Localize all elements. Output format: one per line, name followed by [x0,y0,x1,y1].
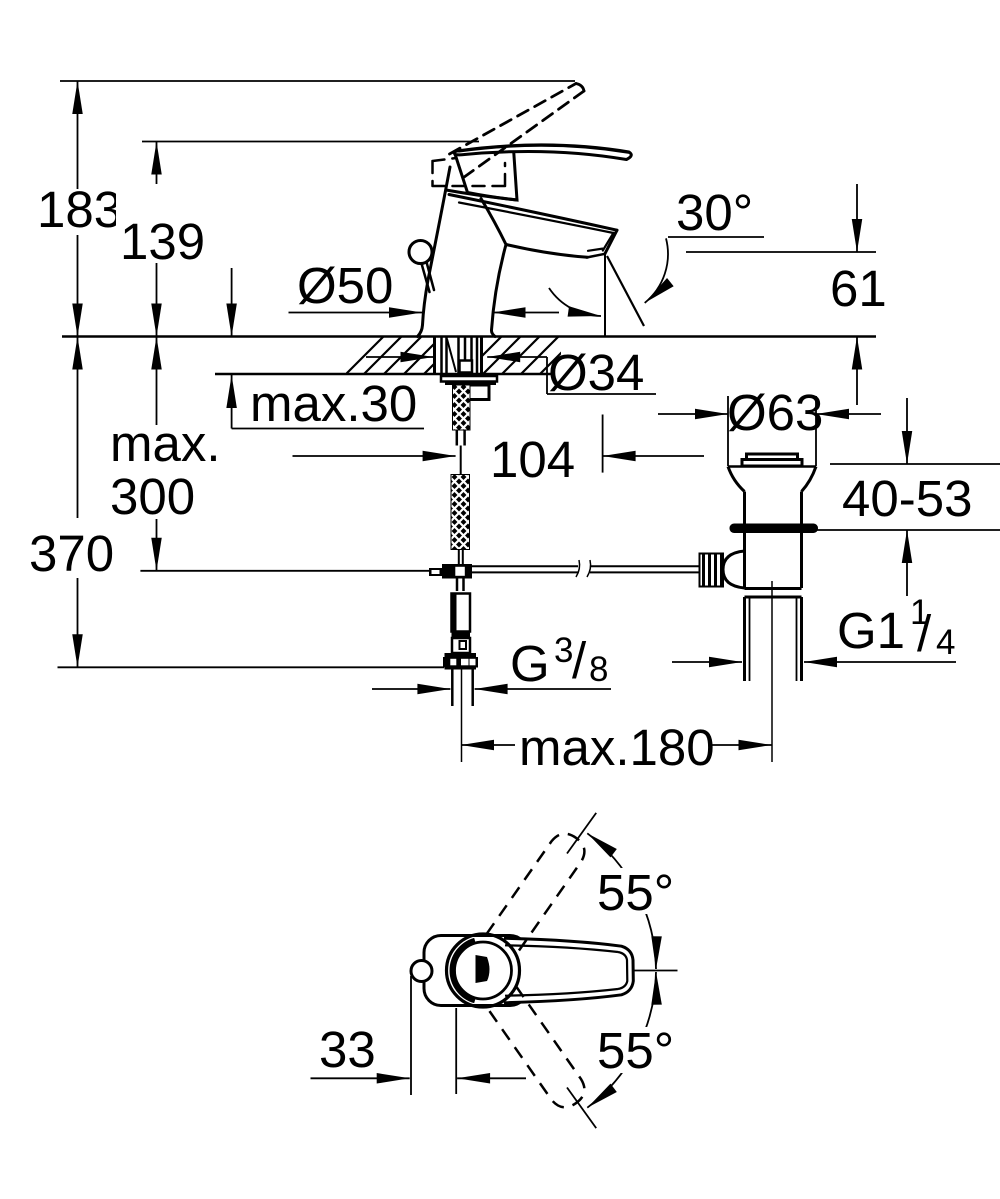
svg-text:8: 8 [589,650,608,689]
deck bottom line [215,373,553,376]
dashed handle base rect [433,158,506,186]
outlet faces [587,254,606,258]
svg-text:55°: 55° [597,864,674,921]
spout end face [605,230,617,254]
pull rod knob [409,241,432,264]
svg-text:G: G [510,635,550,692]
handle cap [455,149,518,201]
center line right [633,970,678,972]
seal ring [730,524,819,534]
washer [441,376,497,382]
side cup [723,551,745,588]
waste center line [771,581,773,762]
sleeve [469,385,489,400]
tailpipe [745,597,802,681]
supply pipe [452,670,472,707]
svg-text:/: / [572,632,587,689]
flare [728,467,816,492]
flange top [728,465,816,468]
svg-text:55°: 55° [597,1022,674,1079]
svg-text:3: 3 [554,631,573,670]
thin rod [459,550,463,565]
svg-text:Ø34: Ø34 [548,344,644,401]
body left edge [418,167,451,337]
slot [476,955,490,983]
dia50 dim lines [289,312,560,314]
connector body [452,594,471,632]
threaded rod upper [453,385,471,430]
61 dim verticals [856,184,858,405]
dia63 ext lines [728,396,816,466]
dia34 leader [366,357,656,394]
knurled adjuster [700,554,724,587]
40-53 dim verticals [906,398,908,596]
svg-text:Ø63: Ø63 [727,384,823,441]
G3/8 nut [445,653,477,657]
svg-text:max.30: max.30 [250,375,417,432]
max180 dim lines [461,744,772,746]
svg-text:370: 370 [29,525,114,582]
tube [457,430,465,446]
lower box [452,638,470,653]
mounting hole walls [435,337,482,374]
deck top line [62,335,876,338]
104 dim lines [293,455,705,457]
svg-text:300: 300 [110,468,195,525]
svg-text:G1: G1 [837,602,905,659]
svg-text:30°: 30° [676,184,753,241]
ref line top 183 [60,80,575,82]
dashed lever down [487,986,591,1113]
370 bottom ref line [58,666,445,668]
housing [424,936,527,1006]
G1 1/4 dim lines [672,661,956,663]
30deg diagonal [607,256,644,326]
pull rod stem [422,262,435,292]
dia63 dim lines [658,413,881,415]
55 ext line lower [567,1088,596,1129]
spout level line 61 [686,251,876,253]
inner ring [455,942,512,999]
svg-text:max.180: max.180 [519,719,715,776]
neck top [446,190,517,200]
body walls lower [745,533,802,588]
svg-text:40-53: 40-53 [842,470,972,527]
spout underside [506,245,588,258]
G3/8 dim lines [372,688,611,690]
dim vertical 139/max300 [156,142,158,571]
outer ring [447,934,520,1007]
33 ext lines [411,976,456,1095]
svg-text:61: 61 [830,260,887,317]
dashed raised lever [450,84,585,178]
55 arc lower [587,972,656,1108]
ref line 139 [142,141,479,143]
dim vertical 183/370 [77,81,79,667]
svg-text:104: 104 [490,431,575,488]
svg-text:4: 4 [936,623,955,662]
lever blade inner line [459,145,629,152]
outlet vertical projection [604,254,606,337]
spout top [449,195,617,231]
max.30 lower bracket [232,375,424,429]
rod break marks [576,560,591,577]
30deg shelf [668,236,764,238]
max.30 upper arrow line [231,268,233,337]
svg-text:33: 33 [319,1021,376,1078]
lever blade [454,145,631,160]
svg-text:/: / [917,605,932,662]
svg-text:Ø50: Ø50 [297,257,393,314]
40-53 ref lines [816,464,1000,530]
threaded rod lower [451,475,470,550]
knob [747,454,798,460]
max.300 bottom ref line [140,570,429,572]
55 ext line upper [567,813,596,854]
clamp block [442,564,472,579]
dashed lever up [487,827,591,954]
blade top view [504,938,633,1002]
actuating rod [472,566,700,572]
33 dim lines [311,1077,527,1079]
body right lower edge [491,245,506,337]
deck hatching [346,337,578,375]
svg-text:max.: max. [110,415,221,472]
55 arc upper [587,833,656,969]
svg-text:139: 139 [120,213,205,270]
ring left crescent [453,941,475,1001]
body walls upper [745,492,802,524]
104 ext line [602,415,604,473]
30deg left arc [549,288,601,316]
nut bar [445,382,496,386]
rod below block [457,579,464,592]
union lines [745,589,802,598]
shank internals [442,337,478,374]
supply center line [461,670,463,763]
body right upper edge [481,199,506,245]
svg-text:183: 183 [37,181,122,238]
30deg arc [645,238,668,303]
ball [411,961,432,982]
